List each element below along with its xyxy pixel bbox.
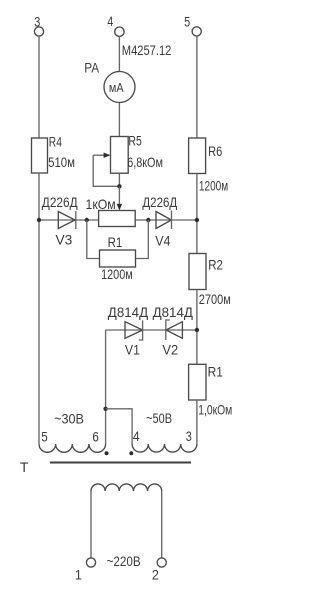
svg-text:510м: 510м	[48, 154, 75, 170]
svg-text:Д814Д: Д814Д	[108, 304, 149, 320]
rail wire right (potentiometer to right rail)	[135, 219, 197, 221]
svg-text:1200м: 1200м	[101, 266, 133, 282]
rail wire left (node to potentiometer)	[39, 219, 99, 221]
wire R2 to R1 lower	[196, 290, 198, 365]
wire meter to R5	[118, 103, 120, 137]
wire terminal 5 to R6	[196, 36, 198, 138]
transformer primary winding	[91, 484, 162, 491]
junction rail-right	[195, 218, 199, 222]
wire zener rail to center tap	[105, 330, 107, 444]
wire center tap to winding 4	[106, 409, 133, 444]
svg-text:3: 3	[186, 428, 192, 444]
svg-text:6: 6	[92, 429, 99, 445]
junction rail-left	[37, 218, 41, 222]
svg-text:R6: R6	[208, 143, 222, 159]
wire R1 to winding 3	[196, 400, 198, 444]
wire terminal 4 to meter PA	[118, 36, 120, 72]
junction R5 wiper node	[117, 184, 121, 188]
transformer core	[50, 462, 191, 464]
svg-text:6,8кОм: 6,8кОм	[127, 154, 163, 170]
R5 wiper arrow	[93, 154, 104, 156]
diode V3	[58, 212, 75, 229]
svg-text:R1: R1	[208, 364, 223, 380]
svg-text:R2: R2	[208, 256, 223, 272]
terminal 4	[115, 27, 124, 36]
resistor R5 (rheostat)	[111, 137, 129, 174]
svg-text:V3: V3	[56, 232, 73, 248]
transformer secondary winding 5-6	[39, 444, 106, 452]
svg-text:R1: R1	[108, 234, 123, 250]
svg-text:1: 1	[75, 567, 82, 583]
wire pot-right branch down	[136, 220, 149, 259]
svg-text:М4257.12: М4257.12	[122, 42, 172, 58]
svg-text:R5: R5	[128, 132, 142, 148]
svg-text:3: 3	[34, 13, 40, 29]
transformer secondary winding 4-3	[132, 444, 197, 452]
svg-text:Д814Д: Д814Д	[153, 304, 194, 320]
junction center tap	[103, 407, 107, 411]
diode V4	[156, 212, 171, 229]
polarity dot winding 6	[105, 451, 109, 455]
wire primary right to terminal 2	[161, 491, 163, 558]
svg-text:2700м: 2700м	[199, 291, 231, 307]
svg-text:мА: мА	[109, 80, 124, 95]
svg-text:~220В: ~220В	[107, 553, 141, 569]
svg-text:R4: R4	[49, 133, 62, 149]
wire terminal 3 to R4	[38, 36, 40, 138]
svg-text:4: 4	[133, 428, 140, 444]
terminal 5	[192, 27, 201, 36]
terminal 2	[157, 558, 166, 567]
svg-text:1кОм: 1кОм	[86, 196, 116, 212]
resistor R6	[189, 138, 206, 174]
terminal 3	[34, 27, 43, 36]
svg-text:V4: V4	[155, 233, 170, 249]
junction pot-right	[146, 218, 150, 222]
wire R6 to R2	[196, 174, 198, 254]
polarity dot winding 4	[129, 451, 133, 455]
resistor R1 (parallel)	[100, 250, 136, 267]
resistor R2	[189, 254, 206, 290]
svg-text:~50В: ~50В	[146, 410, 172, 426]
wire primary left to terminal 1	[90, 491, 92, 558]
svg-text:~30В: ~30В	[54, 411, 84, 427]
R5 wiper loop wire	[93, 155, 119, 186]
svg-text:1200м: 1200м	[199, 177, 228, 193]
svg-text:V1: V1	[125, 342, 140, 358]
svg-text:Т: Т	[20, 459, 29, 475]
resistor R1 (right 1,0кОм)	[189, 364, 206, 400]
zener diode V2	[166, 322, 182, 339]
svg-text:5: 5	[184, 13, 190, 29]
svg-text:PA: PA	[84, 59, 99, 75]
resistor R4	[32, 138, 48, 173]
wire R5 bottom to junction	[118, 173, 120, 186]
junction zener rail right	[195, 328, 199, 332]
svg-text:4: 4	[107, 13, 113, 29]
potentiometer 1кОм	[99, 211, 136, 227]
wire R4 to lower rail	[38, 173, 40, 444]
zener rail wire	[106, 329, 197, 331]
svg-text:2: 2	[152, 567, 159, 583]
meter PA	[104, 72, 135, 103]
zener diode V1	[125, 322, 143, 339]
junction pot-left	[85, 218, 89, 222]
svg-text:Д226Д: Д226Д	[142, 194, 177, 210]
svg-text:V2: V2	[162, 342, 178, 358]
wire pot-left branch down	[87, 220, 100, 259]
svg-text:1,0кОм: 1,0кОм	[198, 401, 232, 417]
svg-text:Д226Д: Д226Д	[42, 194, 78, 210]
terminal 1	[86, 558, 95, 567]
svg-text:5: 5	[41, 429, 48, 445]
wire junction to potentiometer wiper arrow	[118, 186, 120, 204]
